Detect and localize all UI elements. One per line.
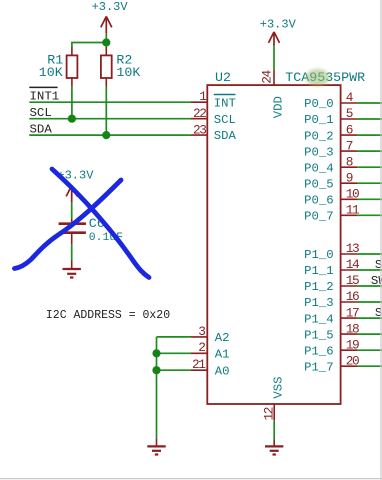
wire: SDA net	[29, 134, 191, 136]
svg-text:P1_0: P1_0	[304, 248, 334, 262]
ground GND2 (VSS)	[265, 440, 283, 455]
pin 12 VSS (bottom)	[261, 376, 285, 420]
svg-text:21: 21	[192, 357, 206, 372]
pin 4 P0_0	[304, 90, 382, 111]
svg-text:P0_6: P0_6	[304, 194, 334, 208]
svg-text:10K: 10K	[116, 65, 140, 80]
pin 9 P0_5	[304, 170, 382, 191]
svg-text:9: 9	[346, 170, 353, 185]
pin 21 A0	[191, 357, 230, 378]
pin 16 P1_3	[304, 289, 382, 310]
window edge right	[380, 0, 382, 480]
pin 24 VDD (top)	[260, 69, 286, 118]
ground GND3 (C6)	[63, 261, 81, 278]
pin 3 A2	[191, 324, 230, 345]
svg-text:10: 10	[346, 187, 359, 202]
svg-text:+3.3V: +3.3V	[260, 18, 297, 32]
svg-text:P0_1: P0_1	[304, 113, 334, 127]
svg-text:P0_4: P0_4	[304, 161, 334, 175]
resistor R2	[101, 47, 112, 87]
junction at top of R2	[102, 38, 110, 46]
ground GND1 (A pins)	[147, 438, 165, 454]
wire: PWR1 stem to junction	[105, 34, 107, 43]
svg-text:10K: 10K	[39, 65, 63, 80]
pin 23 SDA	[191, 122, 237, 143]
pin 15 P1_2	[304, 273, 382, 294]
wire: INT1 net	[29, 101, 191, 103]
svg-text:P0_5: P0_5	[304, 177, 334, 191]
svg-text:16: 16	[346, 289, 359, 304]
pin 10 P0_6	[304, 187, 382, 208]
svg-text:2: 2	[198, 340, 205, 355]
svg-text:19: 19	[346, 337, 359, 352]
svg-text:13: 13	[346, 241, 359, 256]
svg-text:P1_5: P1_5	[304, 328, 334, 342]
svg-text:INT: INT	[214, 96, 236, 110]
svg-text:8: 8	[346, 154, 353, 169]
svg-text:14: 14	[346, 257, 360, 272]
svg-text:VDD: VDD	[271, 96, 285, 118]
highlight blob over 9535	[306, 69, 330, 86]
svg-text:P1_1: P1_1	[304, 264, 334, 278]
pin 6 P0_2	[304, 122, 382, 143]
pin 7 P0_3	[304, 138, 382, 159]
svg-text:+3.3V: +3.3V	[92, 0, 129, 14]
svg-text:5: 5	[346, 106, 353, 121]
svg-text:18: 18	[346, 321, 359, 336]
svg-text:P1_6: P1_6	[304, 344, 334, 358]
svg-text:A2: A2	[215, 331, 230, 345]
svg-text:A0: A0	[215, 364, 230, 378]
svg-text:22: 22	[193, 106, 206, 121]
op chip U2 body	[207, 85, 340, 404]
svg-text:SDA: SDA	[214, 129, 237, 143]
wire: A2 branch vertical	[156, 337, 158, 438]
wire: A2 horizontal	[157, 336, 192, 338]
svg-text:SW: SW	[371, 274, 382, 288]
svg-text:23: 23	[193, 122, 206, 137]
svg-text:P1_3: P1_3	[304, 296, 334, 310]
wire: VDD pin to power	[273, 46, 275, 70]
svg-text:A1: A1	[215, 347, 230, 361]
wire: A0 horizontal	[157, 369, 192, 371]
svg-text:P0_0: P0_0	[304, 97, 334, 111]
svg-text:3: 3	[198, 324, 205, 339]
svg-text:P1_7: P1_7	[304, 360, 334, 374]
pin 2 A1	[191, 340, 230, 361]
wire: PWR3 to C6	[71, 203, 73, 219]
window edge bottom	[0, 478, 382, 480]
wire: SCL net	[29, 118, 191, 120]
power symbol PWR2 +3.3V (above VDD)	[260, 18, 297, 46]
svg-text:17: 17	[346, 305, 359, 320]
net label INT1 (overbar)	[29, 87, 59, 103]
svg-text:20: 20	[346, 353, 359, 368]
svg-text:P1_4: P1_4	[304, 312, 334, 326]
power symbol PWR1 +3.3V (top left)	[92, 0, 129, 34]
svg-text:11: 11	[346, 203, 360, 218]
svg-text:P0_2: P0_2	[304, 129, 334, 143]
annotation blue stroke 1 (X top-left to bottom-right)	[52, 169, 149, 278]
wire: horizontal bus at y=42.5 to R1 branch	[72, 43, 106, 48]
pin 13 P1_0	[304, 241, 382, 262]
pin 14 P1_1	[304, 257, 382, 278]
annotation blue stroke 2 (X top-right to bottom-left)	[15, 180, 122, 269]
pin 5 P0_1	[304, 106, 382, 127]
wire: junction down to R2	[105, 43, 107, 48]
wire: R1 bottom to SCL net	[71, 87, 73, 119]
svg-text:P0_7: P0_7	[304, 210, 334, 224]
svg-text:SCL: SCL	[214, 113, 236, 127]
wire: R2 bottom to SDA net	[105, 87, 107, 135]
svg-text:7: 7	[346, 138, 353, 153]
pin 18 P1_5	[304, 321, 382, 342]
svg-text:12: 12	[261, 407, 276, 420]
svg-text:I2C ADDRESS = 0x20: I2C ADDRESS = 0x20	[46, 309, 170, 322]
wire: A1 horizontal	[157, 352, 192, 354]
junction A1	[152, 349, 160, 357]
power symbol PWR3 +3.3V (above C6)	[57, 169, 94, 203]
svg-text:P0_3: P0_3	[304, 145, 334, 159]
svg-text:6: 6	[346, 122, 353, 137]
svg-text:P1_2: P1_2	[304, 280, 334, 294]
pin 17 P1_4	[304, 305, 382, 326]
resistor R1	[67, 47, 78, 87]
wire: C6 to ground	[71, 244, 73, 261]
pin 20 P1_7	[304, 353, 382, 374]
capacitor C6	[59, 219, 86, 244]
pin 8 P0_4	[304, 154, 382, 175]
junction SDA/R2	[102, 131, 110, 139]
svg-text:15: 15	[346, 273, 359, 288]
junction A0	[152, 366, 160, 374]
pin 11 P0_7	[304, 203, 382, 224]
svg-text:24: 24	[260, 70, 275, 84]
svg-text:VSS: VSS	[271, 376, 285, 398]
pin 1 INT	[191, 89, 236, 110]
junction SCL/R1	[68, 115, 76, 123]
svg-text:U2: U2	[215, 70, 231, 85]
wire: VSS pin to ground	[273, 421, 275, 440]
pin 19 P1_6	[304, 337, 382, 358]
pin 22 SCL	[191, 106, 236, 127]
